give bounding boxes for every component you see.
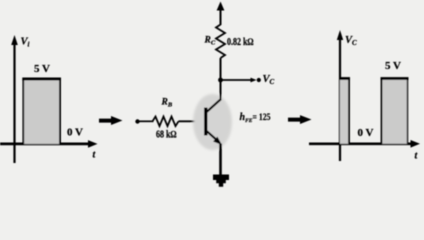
label hFE = 125 [240,112,271,124]
transistor Q1 base bar [204,108,207,136]
transistor Q1 collector lead [206,99,221,113]
node VC junction dot [218,78,223,83]
wire input to RB [138,120,154,122]
ground symbol [213,175,229,187]
wire node to RC [220,58,222,80]
input waveform horizontal axis t [0,140,98,148]
transistor Q1 body shade [193,94,232,150]
output pulse bar 1 [339,79,350,144]
svg-text:hFE: hFE [240,112,253,124]
VCC supply arrow [217,2,225,11]
signal-flow arrow right [288,115,312,124]
wire RB to base [179,120,205,122]
input pulse 5V [22,79,61,144]
wire collector to node [220,80,222,100]
resistor RB zigzag [153,117,179,127]
resistor RC zigzag [216,25,225,59]
svg-text:0 V: 0 V [358,127,374,139]
svg-text:RC: RC [204,36,216,47]
svg-text:= 125: = 125 [253,113,271,123]
input waveform vertical axis Vi [11,35,18,163]
svg-text:t: t [415,151,419,162]
svg-text:0.82 kΩ: 0.82 kΩ [227,37,254,48]
svg-text:t: t [93,150,97,161]
svg-text:5 V: 5 V [385,60,401,72]
wire RC to VCC [220,9,222,25]
svg-text:0 V: 0 V [67,127,83,139]
transistor Q1 emitter lead [206,131,222,146]
svg-text:VC: VC [263,74,275,86]
svg-text:RB: RB [161,98,173,109]
wire emitter to ground [219,144,222,176]
output waveform horizontal axis t [309,140,420,148]
input terminal dot [135,119,139,123]
wire VC output with arrow and terminal dot [221,78,261,83]
signal-flow arrow left [99,116,123,125]
svg-text:VC: VC [345,35,357,47]
output waveform vertical axis VC [337,30,343,161]
output pulse bar 2 [381,79,409,144]
svg-text:5 V: 5 V [34,63,50,75]
svg-text:Vi: Vi [21,37,30,49]
svg-text:68 kΩ: 68 kΩ [156,129,177,140]
